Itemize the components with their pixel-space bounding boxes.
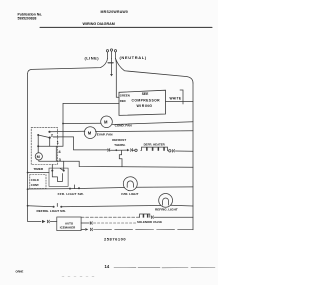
icemaker feed arrow terminal <box>42 220 46 223</box>
solenoid valve coil <box>139 214 150 217</box>
defrost timer dashed box <box>31 128 57 165</box>
svg-text:M: M <box>88 130 92 135</box>
svg-text:ICEMAKER: ICEMAKER <box>60 225 76 229</box>
svg-text:(LINE): (LINE) <box>85 55 100 60</box>
cold control riser right <box>63 161 65 170</box>
svg-text:M: M <box>104 120 108 125</box>
plug P1 prongs <box>106 49 116 63</box>
wire freezer light row <box>28 187 193 189</box>
wire red compressor to timer terminal 4 <box>38 103 119 146</box>
refrigerator light lamp <box>159 194 173 208</box>
motor condenser fan <box>101 116 113 128</box>
cold control switch internals <box>51 168 64 181</box>
svg-text:COLD: COLD <box>31 178 39 182</box>
timer contact 1 drop <box>49 138 51 147</box>
svg-text:SOLENOID VALVE: SOLENOID VALVE <box>137 220 162 224</box>
footer dashes <box>62 267 215 276</box>
wire heater to bus <box>175 150 193 152</box>
svg-text:TIMER: TIMER <box>34 167 44 171</box>
svg-text:4: 4 <box>58 149 61 154</box>
solenoid right connector <box>151 216 153 219</box>
wire terminal 2 to defrost row <box>53 137 107 150</box>
header rule <box>40 26 212 28</box>
svg-text:REFRIG. LIGHT: REFRIG. LIGHT <box>155 208 178 212</box>
wire right bus <box>192 83 194 230</box>
wire evap fan right to bus <box>95 130 193 133</box>
compressor box text <box>132 92 161 108</box>
defrost thermostat assembly <box>108 149 133 152</box>
icemaker upper right wire <box>81 222 136 225</box>
svg-text:CONT.: CONT. <box>31 183 40 187</box>
wire evap fan left from timer contact <box>50 130 85 132</box>
svg-text:ORNE: ORNE <box>16 269 24 273</box>
svg-text:RED: RED <box>120 99 126 103</box>
timer terminal labels <box>51 132 62 162</box>
cold control switch box <box>49 168 68 186</box>
cold control label <box>31 178 40 187</box>
wire cond fan right to bus <box>112 122 193 125</box>
svg-text:EVAP. FAN: EVAP. FAN <box>97 132 113 136</box>
publication number text <box>18 13 43 21</box>
svg-text:WIRING: WIRING <box>137 104 153 108</box>
freezer light lamp <box>123 177 137 191</box>
wire white compressor to right bus <box>166 101 194 103</box>
svg-text:GREEN: GREEN <box>120 93 130 97</box>
svg-text:THERM.: THERM. <box>114 143 125 147</box>
wire line cord from plug to left bus <box>28 59 108 74</box>
timer motor M1 <box>35 153 42 160</box>
wire left bus <box>27 74 29 206</box>
motor evaporator fan <box>84 127 96 139</box>
svg-text:COMPRESSOR: COMPRESSOR <box>132 98 161 102</box>
compressor wire color labels <box>120 93 130 103</box>
svg-text:M: M <box>37 155 40 159</box>
svg-text:REFRIG. LIGHT SW.: REFRIG. LIGHT SW. <box>37 209 66 213</box>
icemaker lower right wire <box>81 228 193 231</box>
svg-text:25876100: 25876100 <box>104 237 126 242</box>
wire arrow to icemaker box <box>50 221 57 223</box>
icemaker labels <box>60 221 76 229</box>
svg-text:5995209838: 5995209838 <box>18 16 37 20</box>
svg-text:FZR. LIGHT: FZR. LIGHT <box>121 192 138 196</box>
icemaker feed connector mark <box>47 220 49 223</box>
svg-text:WIRING DIAGRAM: WIRING DIAGRAM <box>83 22 115 26</box>
wire thermostat to heater <box>133 149 135 151</box>
timer terminal stub <box>53 136 59 138</box>
svg-text:FZR. LIGHT SW.: FZR. LIGHT SW. <box>58 192 84 196</box>
defrost heater coil <box>141 147 168 151</box>
timer motor return wire <box>39 160 193 167</box>
junction dot cond fan tap <box>62 123 64 125</box>
timer switch arm to contact 1 <box>38 135 50 138</box>
connector tick on white wire <box>180 90 183 104</box>
refrigerator light switch <box>53 203 63 207</box>
svg-text:DEFROST: DEFROST <box>112 138 126 142</box>
ground arrowhead <box>110 74 113 76</box>
svg-text:14: 14 <box>105 264 110 269</box>
svg-text:WHITE: WHITE <box>170 96 182 100</box>
timer junction dots <box>37 131 51 148</box>
defrost thermostat bimetal zigzag <box>119 151 122 167</box>
heater left terminal circle <box>135 149 137 151</box>
ground prong wire <box>111 59 113 74</box>
svg-text:DEFR. HEATER: DEFR. HEATER <box>144 143 166 147</box>
heater right connector mark <box>172 149 174 152</box>
timer terminal 4 drop wire <box>55 146 57 161</box>
wire refrigerator light row <box>28 205 193 206</box>
junction dots on left bus <box>27 172 29 207</box>
wire left bus to cold control <box>28 172 49 174</box>
svg-text:MRS20WRAW0: MRS20WRAW0 <box>101 10 129 14</box>
cold control dashed box <box>30 175 46 189</box>
svg-text:SEE: SEE <box>142 92 149 96</box>
wire icemaker feed <box>28 206 41 222</box>
wire green from plug to compressor box <box>116 59 120 98</box>
cold control riser left <box>51 165 53 171</box>
solenoid feed dashed wire <box>81 216 139 218</box>
wire neutral cord from plug to right bus <box>116 59 194 84</box>
svg-text:1: 1 <box>57 139 60 144</box>
compressor box <box>119 90 166 115</box>
wire cond fan left <box>63 122 101 124</box>
label DEFROST THERM. <box>112 138 126 147</box>
icemaker box <box>57 217 81 231</box>
svg-text:(NEUTRAL): (NEUTRAL) <box>120 55 147 60</box>
wire solenoid to bus <box>154 216 193 218</box>
freezer light switch <box>69 185 80 190</box>
timer internal wire <box>37 135 39 153</box>
heater right terminal circle <box>169 150 171 152</box>
